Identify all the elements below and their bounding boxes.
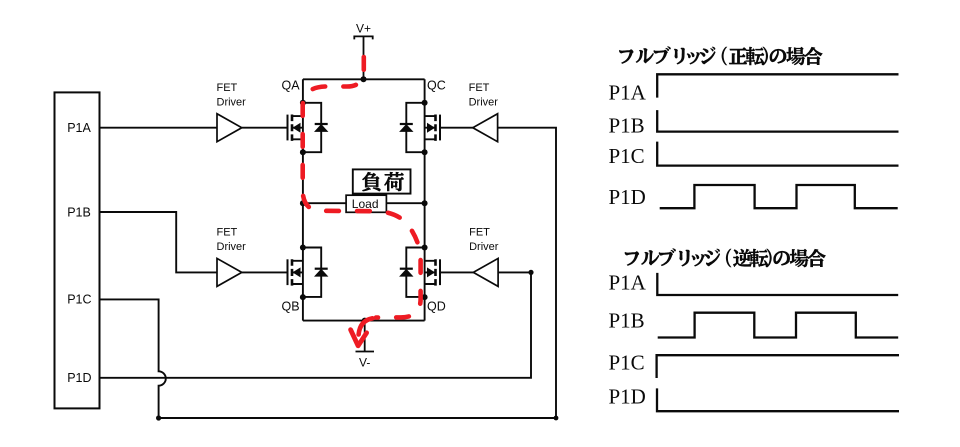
svg-text:QA: QA — [282, 78, 301, 92]
svg-text:FET: FET — [469, 82, 490, 94]
svg-text:Driver: Driver — [217, 241, 247, 253]
transistor QA drain/source stubs — [292, 116, 303, 139]
transistor QD channel segments — [434, 259, 437, 285]
svg-text:P1C: P1C — [67, 293, 91, 307]
svg-text:Driver: Driver — [469, 241, 499, 253]
wire P1A to driver U1 — [100, 127, 218, 129]
power V- symbol — [356, 321, 375, 352]
timing waveform d1 P1C low — [657, 142, 898, 166]
QB body-diode loop wiring — [303, 248, 321, 297]
QB body-diode triangle — [314, 269, 328, 277]
QC body-diode loop wiring — [406, 103, 424, 152]
junction P1C corner bottom — [156, 415, 161, 420]
svg-text:P1D: P1D — [609, 385, 646, 409]
wire top rail — [303, 78, 425, 80]
svg-text:QC: QC — [427, 78, 446, 92]
wire U4 output to QD gate — [440, 271, 474, 273]
wire load connection — [303, 202, 425, 204]
op-amp buffer U3 (FET Driver, points left) — [473, 114, 498, 142]
wire P1D to driver U4 — [100, 272, 532, 377]
svg-text:V+: V+ — [356, 22, 371, 36]
timing waveform d1 P1B low — [657, 110, 898, 132]
power V+ symbol — [354, 36, 372, 79]
transistor QB channel segments — [291, 259, 294, 285]
svg-text:Driver: Driver — [217, 96, 247, 108]
timing waveform d1 P1D pulses — [660, 185, 898, 208]
load component: kanji box 負荷 — [353, 169, 411, 193]
microcontroller port box — [55, 92, 100, 408]
QA body-diode loop wiring — [303, 103, 321, 152]
svg-text:P1C: P1C — [609, 351, 645, 375]
transistor QA channel segments — [291, 115, 294, 141]
QA body-diode triangle — [314, 124, 328, 132]
QC body-diode triangle — [399, 124, 413, 132]
wire P1C down with hop over P1D, along bottom, up right side to driver U3 — [100, 128, 557, 418]
red arrowhead at V- — [359, 318, 373, 334]
title: full-bridge forward case — [619, 46, 823, 65]
timing waveform d2 P1B pulses — [658, 313, 899, 338]
transistor QB gate bar — [287, 259, 289, 285]
junction QB bottom — [300, 294, 306, 300]
QD body-diode loop wiring — [406, 248, 424, 297]
transistor QB arrow — [293, 267, 301, 277]
junction V- node — [362, 318, 368, 324]
svg-text:QB: QB — [282, 300, 300, 314]
QB body-diode cathode bar — [315, 268, 328, 270]
wire U1 output to QA gate — [242, 127, 288, 129]
wire left rail — [302, 79, 304, 320]
QC body-diode cathode bar — [400, 123, 413, 125]
svg-text:P1C: P1C — [609, 144, 645, 168]
junction bottom right corner — [554, 416, 559, 421]
op-amp buffer U4 (FET Driver, points left) — [473, 258, 498, 286]
junction QD bottom — [422, 294, 428, 300]
svg-text:P1B: P1B — [609, 114, 645, 138]
transistor QC gate bar — [439, 115, 441, 141]
op-amp buffer U2 (FET Driver, points right) — [217, 258, 242, 286]
junction QC top — [422, 100, 428, 106]
timing waveform d2 P1A low — [657, 273, 898, 295]
junction V+ node — [361, 76, 367, 82]
transistor QC arrow — [427, 123, 435, 133]
QA body-diode cathode bar — [315, 123, 328, 125]
junction load left — [300, 200, 306, 206]
svg-text:FET: FET — [217, 82, 238, 94]
timing waveform d1 P1A high — [657, 74, 898, 97]
transistor QA gate bar — [287, 115, 289, 141]
timing waveform d2 P1D low — [657, 388, 899, 411]
transistor QD arrow — [427, 267, 435, 277]
transistor QA arrow — [293, 123, 301, 133]
wire P1B to driver U2 — [100, 212, 218, 272]
svg-text:P1D: P1D — [67, 371, 91, 385]
svg-text:QD: QD — [427, 300, 446, 314]
junction QD top — [422, 245, 428, 251]
svg-text:P1B: P1B — [67, 205, 91, 219]
red current path V+ through QA, load, QD to V- — [303, 52, 421, 318]
junction P1D corner at driver U4 input — [528, 270, 533, 275]
svg-text:P1A: P1A — [609, 81, 647, 105]
svg-text:FET: FET — [217, 227, 238, 239]
timing waveform d2 P1C high — [657, 355, 899, 378]
QD body-diode cathode bar — [400, 268, 413, 270]
transistor QD drain/source stubs — [425, 261, 436, 284]
svg-text:P1B: P1B — [609, 309, 645, 333]
svg-text:P1A: P1A — [609, 271, 647, 295]
transistor QC channel segments — [434, 115, 437, 141]
transistor QB drain/source stubs — [292, 261, 303, 284]
transistor QC drain/source stubs — [425, 116, 436, 139]
svg-text:Driver: Driver — [469, 96, 499, 108]
title: full-bridge reverse case — [625, 248, 826, 267]
junction QB top — [300, 245, 306, 251]
svg-text:P1D: P1D — [609, 185, 646, 209]
op-amp buffer U1 (FET Driver, points right) — [217, 114, 242, 142]
junction load right — [422, 200, 428, 206]
wire U3 output to QC gate — [440, 127, 474, 129]
QD body-diode triangle — [399, 269, 413, 277]
wire bottom rail — [303, 320, 425, 322]
transistor QD gate bar — [439, 259, 441, 285]
junction QA top — [300, 100, 306, 106]
svg-text:FET: FET — [469, 227, 490, 239]
svg-text:V-: V- — [359, 356, 370, 370]
junction QA bottom — [300, 149, 306, 155]
wire U2 output to QB gate — [242, 271, 288, 273]
junction QC bottom — [422, 149, 428, 155]
wire right rail — [424, 79, 426, 320]
load component: Load box — [346, 195, 386, 212]
svg-text:P1A: P1A — [67, 121, 91, 135]
